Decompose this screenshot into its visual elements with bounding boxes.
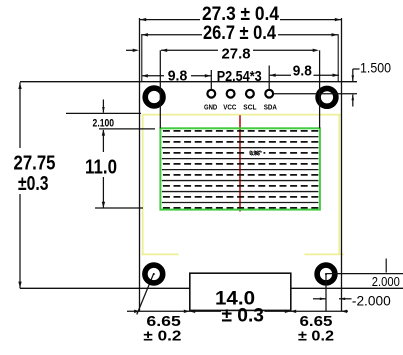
- display row dashed line 2: [163, 141, 319, 143]
- glass panel bottom edge left segment (yellow): [142, 253, 179, 255]
- svg-text:2.100: 2.100: [93, 117, 115, 129]
- display row dashed line 3: [163, 152, 319, 154]
- dim 2.100 upper arrow: [102, 100, 104, 113]
- PCB left edge / extension line: [139, 18, 141, 312]
- display row solid line 6: [162, 191, 319, 193]
- display row dashed line 1: [163, 130, 319, 132]
- display active area border (green): [160, 128, 320, 209]
- display row solid line 7: [162, 202, 319, 204]
- svg-text:± 0.3: ± 0.3: [221, 304, 264, 326]
- dim line 27.8 outside arrow left: [126, 49, 137, 51]
- PCB top edge line (extended for 27.75 and 1.500 dims): [20, 81, 357, 83]
- svg-text:0.96": 0.96": [250, 150, 262, 157]
- 0.96 inch label mask: [246, 149, 264, 156]
- ext line display bottom left: [95, 207, 143, 209]
- display row solid line 5: [162, 180, 319, 182]
- display row solid line 2: [162, 147, 319, 149]
- dim -2.000 arrow: [313, 298, 326, 300]
- extension line 26.7 left: [141, 34, 143, 81]
- connector block 14.0: [190, 273, 291, 310]
- svg-text:± 0.2: ± 0.2: [298, 328, 334, 344]
- pin 1 circle (GND): [207, 90, 215, 98]
- dim line 26.7 +-0.4: [141, 34, 202, 36]
- glass panel outline top edge (yellow): [142, 114, 341, 116]
- svg-text:P2.54*3: P2.54*3: [217, 69, 262, 85]
- dim line 9.8 left: [142, 75, 165, 77]
- svg-text:VCC: VCC: [223, 102, 237, 111]
- svg-text:SDA: SDA: [264, 102, 278, 111]
- pin 4 extension line: [268, 66, 270, 90]
- dim line 27.8: [161, 49, 218, 51]
- svg-text:9.8: 9.8: [168, 67, 188, 84]
- svg-text:±0.3: ±0.3: [18, 173, 49, 195]
- ext line glass top left: [66, 112, 141, 114]
- dim 11.0 vertical line: [102, 130, 104, 152]
- dim 1.500 lower arrow: [352, 95, 354, 107]
- svg-text:-2.000: -2.000: [352, 293, 391, 308]
- dim 1.500 bracket: [353, 68, 360, 70]
- extension line 26.7 right: [337, 34, 339, 81]
- display row solid line 3: [162, 158, 319, 160]
- display row solid line 1: [162, 136, 319, 138]
- mounting hole top-left: [145, 88, 163, 106]
- display row solid line 4: [162, 169, 319, 171]
- dim line bottom row (6.65 / 14.0 / 6.65): [127, 310, 221, 312]
- hole center vertical ext bottom-right: [325, 274, 327, 311]
- extension line 27.8 right (to display corner): [319, 50, 321, 128]
- pin 1 extension line: [210, 70, 212, 90]
- dim 2.000 tick: [385, 259, 387, 273]
- PCB right edge / extension line: [341, 18, 343, 312]
- display row dashed line 5: [163, 174, 319, 176]
- extension line 27.8 left (to display corner): [159, 50, 161, 128]
- display row dashed line 7: [163, 196, 319, 198]
- dim -2.000 leader: [339, 298, 352, 300]
- display row dashed line 4: [163, 163, 319, 165]
- dim line 9.8 right: [269, 74, 291, 76]
- svg-text:27.8: 27.8: [222, 46, 251, 63]
- display row dashed line 6: [163, 185, 319, 187]
- glass panel outline right edge (yellow): [338, 115, 340, 255]
- svg-text:SCL: SCL: [243, 102, 257, 111]
- PCB bottom edge line: [20, 287, 190, 289]
- svg-text:2.000: 2.000: [372, 274, 400, 289]
- svg-text:11.0: 11.0: [85, 156, 117, 178]
- mounting hole bottom-left: [145, 265, 163, 283]
- svg-text:9.8: 9.8: [293, 63, 312, 80]
- mounting hole top-right: [318, 88, 336, 106]
- pin 3 circle (SCL): [246, 90, 254, 98]
- red vertical center line of display: [239, 115, 241, 211]
- svg-text:26.7 ± 0.4: 26.7 ± 0.4: [203, 22, 276, 44]
- dim 27.75 vertical line: [19, 82, 21, 148]
- glass panel outline left edge (yellow): [142, 115, 144, 255]
- pin 4 circle (SDA): [265, 90, 273, 98]
- svg-text:27.75: 27.75: [14, 152, 56, 174]
- mounting hole bottom-right: [317, 265, 335, 283]
- oblique extension from bottom-left hole: [137, 274, 154, 314]
- pin 2 circle (VCC): [227, 90, 235, 98]
- svg-text:GND: GND: [204, 102, 218, 111]
- ext line display top left: [99, 128, 155, 130]
- hole center line bottom-right: [326, 273, 403, 275]
- glass panel bottom edge right segment (yellow): [304, 253, 343, 255]
- display row dashed line 8: [163, 207, 319, 209]
- svg-text:± 0.2: ± 0.2: [143, 328, 181, 344]
- pin row reference line to 1.500 dim: [269, 93, 357, 95]
- dim line 27.3 +-0.4: [140, 19, 201, 21]
- svg-text:1.500: 1.500: [360, 59, 391, 75]
